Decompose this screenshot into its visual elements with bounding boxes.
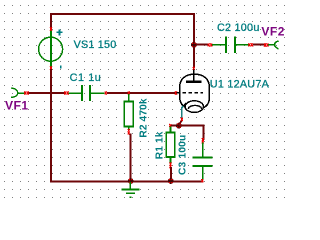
VF2 pin markers bbox=[264, 43, 266, 46]
wire anode node to C2 bbox=[196, 44, 208, 46]
wire cathode node to C3 corner bbox=[179, 126, 204, 141]
svg-text:VF2: VF2 bbox=[261, 25, 285, 39]
junction ground node bbox=[128, 178, 134, 184]
U1 anode lead bbox=[193, 70, 195, 81]
terminal VF1 bbox=[11, 88, 18, 97]
cathode pin marker bbox=[181, 118, 183, 121]
wire bottom rail bbox=[50, 181, 203, 183]
anode pin marker bbox=[193, 67, 195, 70]
VS1 top pin marker bbox=[50, 27, 52, 30]
wire left vertical to rail bbox=[50, 69, 52, 183]
resistor R2 bbox=[124, 94, 133, 135]
svg-text:C3 100u: C3 100u bbox=[178, 135, 189, 175]
VS1 minus tick bbox=[60, 65, 62, 68]
wire top horizontal bbox=[50, 14, 194, 43]
wire C1 to grid bbox=[107, 92, 176, 94]
ground bbox=[122, 182, 140, 197]
VF1 pin markers bbox=[24, 91, 26, 94]
svg-text:U1 12AU7A: U1 12AU7A bbox=[210, 79, 270, 91]
junction R1 rail bbox=[168, 178, 174, 184]
U1 plate bar bbox=[186, 80, 202, 83]
svg-text:R1 1k: R1 1k bbox=[154, 131, 165, 159]
C3 top pin markers bbox=[202, 138, 204, 141]
wire cathode (teal) bbox=[182, 106, 184, 118]
R2 top pin marker bbox=[128, 91, 130, 94]
voltage source VS1 bbox=[39, 30, 63, 67]
wire VS1 top vertical bbox=[50, 13, 52, 29]
U1 grid dashed line bbox=[177, 92, 204, 94]
VS1 bottom pin marker bbox=[50, 66, 52, 69]
VS1 plus sign bbox=[57, 30, 63, 36]
wire anode vertical bbox=[193, 46, 195, 68]
svg-text:C1 1u: C1 1u bbox=[70, 72, 102, 84]
wire VF1 to C1 bbox=[29, 92, 66, 94]
wire R2 to rail bbox=[130, 134, 132, 182]
junction anode node bbox=[191, 42, 197, 48]
svg-text:VF1: VF1 bbox=[5, 99, 29, 113]
wire C2 to VF2 bbox=[253, 44, 265, 46]
svg-text:C2 100u: C2 100u bbox=[217, 22, 260, 34]
VF2 lead bbox=[268, 44, 275, 46]
U1 cathode dome bbox=[188, 105, 201, 108]
R1 top pin marker bbox=[169, 124, 171, 127]
capacitor C3 bbox=[192, 143, 212, 183]
U1 cathode pin lead bbox=[183, 103, 186, 106]
capacitor C1 bbox=[64, 85, 107, 101]
resistor R1 bbox=[166, 127, 175, 169]
triode U1 envelope bbox=[180, 74, 210, 109]
wire R1 to rail bbox=[170, 167, 172, 182]
capacitor C2 bbox=[208, 37, 253, 53]
wire cathode node to R1 bbox=[170, 125, 179, 127]
junction cathode node bbox=[176, 123, 182, 129]
svg-text:VS1 150: VS1 150 bbox=[74, 39, 117, 51]
terminal VF2 bbox=[275, 41, 279, 49]
wire cathode pin to node bbox=[179, 121, 182, 126]
U1 cathode oval bbox=[185, 101, 203, 113]
grid pin marker bbox=[175, 91, 177, 94]
svg-text:R2 470k: R2 470k bbox=[139, 98, 150, 137]
VF1 lead bbox=[18, 92, 25, 94]
